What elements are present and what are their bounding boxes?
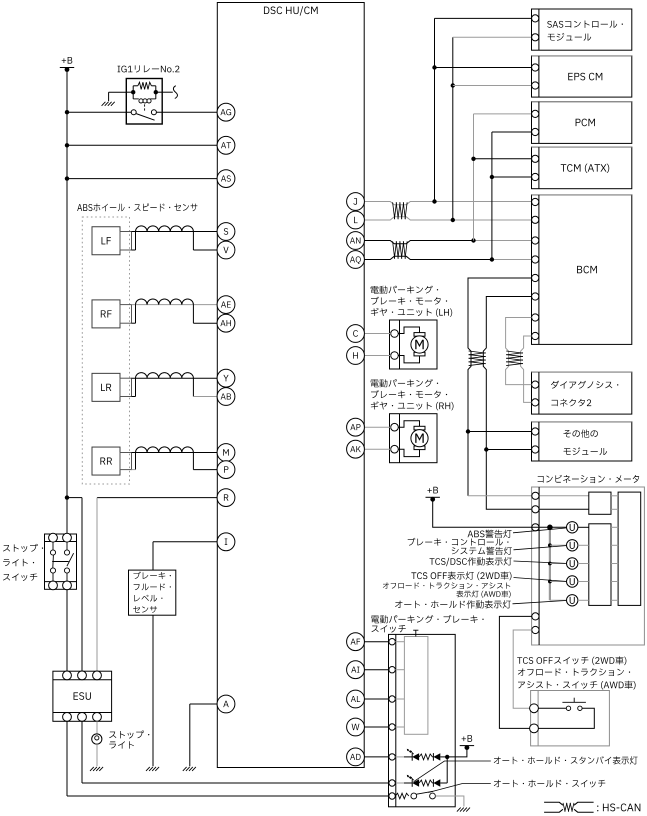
BCM terminal 2 <box>532 216 539 223</box>
stop light switch contacts <box>50 542 69 582</box>
sensor RF box <box>92 300 120 328</box>
ESU box <box>53 671 112 721</box>
twisted pair diag feed <box>506 351 523 366</box>
label PCM <box>576 119 595 127</box>
wire RF jog left <box>132 305 136 324</box>
TCM (ATX) box <box>532 147 632 189</box>
legend twisted pair <box>544 802 594 812</box>
relay K1 armature link <box>144 104 146 110</box>
label offroad traction assist indicator <box>383 582 511 597</box>
wire EPB row6 internal <box>395 782 404 784</box>
pin A <box>217 695 235 713</box>
diagnosis connector 2 connector strip <box>538 372 540 414</box>
relay K1 contact left <box>131 110 136 115</box>
wire LF jog left <box>132 232 136 251</box>
pin AE <box>217 296 235 314</box>
pin AB <box>217 388 235 406</box>
PCM connector strip <box>538 102 540 144</box>
wire pin L to CAN <box>364 217 531 220</box>
TCS OFF switch box <box>531 691 610 746</box>
sensor LF box <box>92 227 120 255</box>
wire pin AK <box>364 448 391 450</box>
wire relay coil to ground <box>109 92 127 101</box>
BCM terminal 7 <box>532 314 539 321</box>
leader ABS warning <box>513 528 566 533</box>
wire meter T4 to TCS switch <box>499 616 531 728</box>
wire bus to lamp 1 <box>550 526 567 528</box>
node relay coil left <box>126 90 135 94</box>
wire ESU bot3 to stop light <box>96 721 98 734</box>
ESU terminal top3 <box>93 671 102 680</box>
lamp auto hold indicator <box>567 595 578 606</box>
twisted loops LR <box>136 373 194 379</box>
EPB motor RH box <box>390 414 438 463</box>
label EPB switch <box>371 615 483 633</box>
pin L <box>347 211 365 229</box>
+B supply EPB <box>460 735 474 750</box>
wire pin H <box>364 355 391 357</box>
label RR <box>100 457 112 464</box>
wire meter B-C row 2 <box>611 544 618 546</box>
pin AQ <box>347 251 365 269</box>
node LED junction <box>445 755 449 759</box>
label auto hold standby lamp <box>494 756 638 764</box>
label diagnosis connector 2 <box>551 381 618 407</box>
pin AH <box>217 314 235 332</box>
meter inner block A <box>589 492 611 514</box>
wire bus to lamp 5 <box>550 599 567 601</box>
diagnosis connector 2 terminal 2 <box>532 399 539 406</box>
stop light switch terminal T1 <box>49 533 58 542</box>
label TCS OFF indicator lamp <box>411 571 511 580</box>
label stop light switch <box>3 544 43 581</box>
wire CAN2-L riser to PCM <box>492 132 532 260</box>
wire LF return <box>193 249 217 251</box>
SAS control module connector strip <box>538 9 540 50</box>
wire relay to pin AG <box>156 111 217 113</box>
EPS CM box <box>532 56 632 97</box>
label LR <box>101 384 111 391</box>
meter terminal T2 <box>532 506 539 513</box>
node EPS CAN-H tap <box>432 65 436 69</box>
wire bus to relay contact <box>67 111 131 113</box>
twisted loops RF <box>136 299 194 305</box>
label HS-CAN <box>597 804 640 812</box>
SAS control module terminal 1 <box>532 15 539 22</box>
wire BCM T5 to meter T1 <box>468 278 532 496</box>
ESU terminal bot1 <box>63 713 72 722</box>
wire pin AQ to CAN <box>364 256 531 259</box>
pin C <box>347 325 365 343</box>
pin R <box>217 489 235 507</box>
pin AK <box>347 440 365 458</box>
wire sensor to ground <box>152 615 154 766</box>
label IG1 relay No.2 <box>118 65 180 72</box>
lamp bus <box>549 527 551 600</box>
diagnosis connector 2 terminal 1 <box>532 381 539 388</box>
wire LR return <box>193 396 217 398</box>
other modules terminal 1 <box>532 428 539 435</box>
meter inner block B <box>589 524 611 606</box>
SAS control module box <box>532 9 632 50</box>
label ABS warning lamp <box>468 530 512 538</box>
wire BCM T6 to meter T2 <box>483 297 589 510</box>
other modules connector strip <box>538 422 540 461</box>
wire LF jog right <box>192 232 194 251</box>
stop light switch terminal T4 <box>63 581 72 590</box>
EPB motor LH terminal 1 <box>391 330 399 338</box>
LED auto hold standby <box>404 749 447 761</box>
label BCM <box>577 266 597 274</box>
ESU terminal top2 <box>78 671 87 680</box>
ground relay <box>102 102 115 106</box>
twisted loops RR <box>136 447 194 453</box>
EPB terminal AL <box>389 696 395 702</box>
brake fluid level sensor box <box>129 570 176 615</box>
SAS control module terminal 2 <box>532 34 539 41</box>
pin AD <box>347 748 365 766</box>
wire bus to lamp 2 <box>550 544 567 546</box>
pin AP <box>347 418 365 436</box>
wire tap to TCM T2 <box>492 176 532 178</box>
pin AL <box>347 690 365 708</box>
node AQ junction <box>490 257 494 261</box>
TCM (ATX) terminal 1 <box>532 155 539 162</box>
ESU terminal bot3 <box>93 713 102 722</box>
ESU terminal top1 <box>63 671 72 680</box>
pin AI <box>347 661 365 679</box>
BCM terminal 3 <box>532 237 539 244</box>
leader auto hold standby lamp <box>414 761 491 782</box>
wire meter T5 to TCS switch <box>513 630 532 708</box>
node bus-R <box>65 495 69 499</box>
wire pin C <box>364 333 391 335</box>
motor LH brushes <box>414 333 425 356</box>
lamp brake control system warning <box>567 540 578 551</box>
leader TCS/DSC <box>514 561 566 563</box>
EPB terminal AI <box>389 667 395 673</box>
wire meter B-C row 5 <box>611 599 618 601</box>
relay K1 coil <box>133 99 156 103</box>
wire meter B-C row 3 <box>611 563 618 565</box>
wire tap to other-modules T2 <box>486 449 531 451</box>
node AN junction <box>471 238 475 242</box>
wire motor RH brush top <box>398 421 419 428</box>
wire ESU bot1 to EPB switch <box>67 721 389 796</box>
stop light bulb <box>92 734 102 744</box>
wire TCS T1 to contact <box>538 707 566 709</box>
wire ESU bot2 to EPB switch <box>82 721 389 783</box>
wire R to ESU <box>96 498 98 672</box>
wire +B bus <box>66 70 68 534</box>
node lamp bus 4 <box>548 580 552 584</box>
motor RH brushes <box>414 426 425 449</box>
label ESU <box>74 692 91 700</box>
meter terminal T3 <box>532 524 539 531</box>
pin V <box>217 241 235 259</box>
stop light switch blades <box>52 553 73 568</box>
pin W <box>347 718 365 736</box>
node bus-AT <box>65 143 69 147</box>
pin AT <box>217 136 235 154</box>
wire LED1 to LED2 <box>446 757 448 783</box>
wire BCM T8 to diag T2 <box>521 336 532 402</box>
combination meter box <box>532 487 645 645</box>
connector squiggle <box>173 86 177 99</box>
stop light switch terminal T3 <box>49 581 58 590</box>
wire CAN-H riser to SAS <box>435 18 532 201</box>
leader auto hold indicator <box>513 601 567 604</box>
twisted loops LF <box>136 226 194 232</box>
EPB switch box <box>389 634 456 806</box>
lamp TCS OFF indicator <box>567 576 578 587</box>
node lamp bus top <box>547 525 553 531</box>
ground stop light <box>90 767 103 771</box>
label LF <box>102 237 111 244</box>
relay K1 resistor <box>138 82 152 89</box>
BCM terminal 1 <box>532 198 539 205</box>
wire A to ground <box>189 704 191 766</box>
wire TCS contact to T2 <box>538 708 594 728</box>
wire lamp 5 to block B <box>578 599 589 601</box>
BCM terminal 4 <box>532 256 539 263</box>
wire meter B-C row 4 <box>611 581 618 583</box>
wire BCM T7 to diag T1 <box>506 318 532 385</box>
relay K1 blade <box>136 114 154 121</box>
EPB motor LH terminal 2 <box>391 352 399 360</box>
pin J <box>347 193 365 211</box>
connector bracket RF <box>120 305 132 324</box>
EPB motor RH strip <box>399 414 401 463</box>
wire EPB AF internal <box>395 641 404 643</box>
auto hold switch resistor <box>395 793 409 799</box>
wire bus to pin AS <box>67 178 217 180</box>
meter connector strip <box>538 487 540 645</box>
label auto hold switch <box>494 780 605 788</box>
pin P <box>217 461 235 479</box>
BCM terminal 8 <box>532 332 539 339</box>
TCS switch terminal 1 <box>530 704 539 713</box>
lamp ABS warning <box>567 522 578 533</box>
node L junction <box>451 218 455 222</box>
motor LH M <box>411 336 428 353</box>
pin M <box>217 444 235 462</box>
pin S <box>217 223 235 241</box>
connector bracket RR <box>120 453 132 470</box>
+B supply symbol <box>60 57 74 72</box>
stop light switch terminal T2 <box>63 533 72 542</box>
EPB switch strip <box>395 634 397 806</box>
DSC HU/CM unit box <box>217 3 364 768</box>
pin H <box>347 347 365 365</box>
wire pin AD to EPB <box>364 756 389 758</box>
node bus-AG <box>65 110 69 114</box>
label brake fluid level sensor <box>133 572 171 613</box>
wire pin I <box>153 541 217 543</box>
wire LF signal <box>132 231 218 233</box>
wire bus to lamp 3 <box>550 563 567 565</box>
ground EPB switch <box>457 808 470 812</box>
auto hold switch blade <box>417 791 434 794</box>
node bus-AS <box>65 176 69 180</box>
label other modules <box>563 429 607 455</box>
label TCM (ATX) <box>561 164 610 173</box>
other modules box <box>532 422 632 461</box>
leader TCS OFF <box>514 578 567 582</box>
PCM terminal 2 <box>532 128 539 135</box>
PCM box <box>532 102 632 144</box>
wire RR jog right <box>192 453 194 470</box>
label EPB motor RH <box>371 379 454 410</box>
sensor RR box <box>92 447 120 475</box>
wire tap to TCM T1 <box>474 158 532 160</box>
ground brake fluid sensor <box>146 767 159 771</box>
wire EPB AD internal <box>395 756 404 758</box>
EPB actuator mark <box>413 630 418 636</box>
twisted pair meter feed <box>469 351 486 366</box>
label combination meter <box>538 475 640 483</box>
wire lamp 1 to block B <box>578 526 589 528</box>
EPB motor RH terminal 1 <box>391 423 399 431</box>
label TCS OFF switch <box>517 656 635 689</box>
EPB motor RH terminal 2 <box>391 445 399 453</box>
pin AS <box>217 170 235 188</box>
wire relay coil continuation <box>162 91 173 93</box>
wire tap to EPS T2 <box>453 85 532 87</box>
ESU strip lines <box>53 680 112 713</box>
wire RR jog left <box>132 453 136 470</box>
node relay coil right <box>154 90 163 94</box>
wire motor RH brush bottom <box>398 449 419 456</box>
wire bus to ESU branch <box>67 498 82 672</box>
wire +B to LED <box>447 748 467 757</box>
EPS CM terminal 1 <box>532 64 539 71</box>
wire pin AP <box>364 426 391 428</box>
wire pin R <box>97 497 217 499</box>
TCM (ATX) connector strip <box>538 147 540 189</box>
EPB motor LH box <box>390 320 438 369</box>
label stop light <box>109 730 149 748</box>
node other-modules tap1 <box>466 429 470 433</box>
wire EPB AL internal <box>395 698 404 700</box>
relay K1 branch frame <box>133 86 156 99</box>
relay K1 contact right <box>151 110 156 115</box>
wire pin W to EPB <box>364 726 389 728</box>
LED auto hold switch lamp <box>404 775 447 787</box>
wire into meter T1 <box>468 495 589 497</box>
TCS switch strip <box>537 691 539 746</box>
label DSC HU/CM <box>264 6 318 15</box>
diagnosis connector 2 box <box>532 372 632 414</box>
wire motor LH brush bottom <box>398 356 419 363</box>
pin AN <box>347 232 365 250</box>
motor RH M <box>411 430 428 447</box>
sensor group dashed box <box>82 217 129 484</box>
leader auto hold switch <box>428 784 491 793</box>
push switch actuator <box>562 698 586 703</box>
twisted pair AN/AQ <box>393 241 408 258</box>
relay K1 box <box>126 79 162 125</box>
wire pin AI to EPB <box>364 669 389 671</box>
stop light switch box <box>45 534 77 589</box>
wire RF return <box>193 322 217 324</box>
connector bracket LF <box>120 232 132 251</box>
wire motor LH brush top <box>398 327 419 334</box>
wire LR jog left <box>132 378 136 396</box>
wire LR signal <box>132 377 218 379</box>
wire RR signal <box>132 452 218 454</box>
pin AG <box>217 103 235 121</box>
EPB inner switch block <box>404 637 428 735</box>
TCM (ATX) terminal 2 <box>532 173 539 180</box>
wire tap to EPS T1 <box>435 67 532 69</box>
EPB terminal row6 <box>389 780 395 786</box>
wire EPB W internal <box>395 726 404 728</box>
connector bracket LR <box>120 378 132 396</box>
wire I down to sensor <box>152 542 154 570</box>
wire lamp 3 to block B <box>578 563 589 565</box>
label EPS CM <box>568 73 602 81</box>
BCM terminal 5 <box>532 274 539 281</box>
label SAS control module <box>547 21 623 41</box>
wire LR jog right <box>192 378 194 396</box>
node lamp bus 3 <box>548 562 552 566</box>
wire CAN-L riser to SAS <box>453 37 532 220</box>
wire bus to pin AT <box>67 144 217 146</box>
label TCS/DSC indicator lamp <box>430 557 512 566</box>
sensor LR box <box>92 373 120 401</box>
node EPS CAN-L tap <box>451 83 455 87</box>
pin I <box>217 533 235 551</box>
EPB terminal AD <box>389 754 395 760</box>
wire RF signal <box>132 304 218 306</box>
label RF <box>101 310 112 317</box>
leader brake warning <box>514 546 567 550</box>
EPB motor LH strip <box>399 320 401 369</box>
other modules terminal 2 <box>532 446 539 453</box>
BCM connector strip <box>538 195 540 345</box>
wire lamp 2 to block B <box>578 544 589 546</box>
TCS switch terminal 2 <box>530 724 539 733</box>
auto hold switch contact 2 <box>430 793 436 799</box>
wire pin AL to EPB <box>364 698 389 700</box>
node TCM CAN-H tap <box>471 157 475 161</box>
meter inner block C <box>618 492 641 605</box>
stop light switch strip lines <box>45 542 77 582</box>
wire CAN2-H riser to PCM <box>474 114 532 241</box>
label auto hold indicator lamp <box>395 600 511 608</box>
wire meter A-C row1 <box>611 495 618 497</box>
wire pin J to CAN <box>364 202 531 205</box>
pin AF <box>347 633 365 651</box>
BCM box <box>532 195 632 345</box>
node J junction <box>432 199 436 203</box>
PCM terminal 1 <box>532 110 539 117</box>
wire pin AN to CAN <box>364 241 531 244</box>
twisted pair J/L <box>393 202 408 219</box>
wire meter A-C row2 <box>611 508 618 510</box>
EPB terminal W <box>389 724 395 730</box>
wire pin A <box>190 703 218 705</box>
meter terminal T1 <box>532 492 539 499</box>
+B supply meter <box>426 487 440 502</box>
lamp TCS/DSC indicator <box>567 558 578 569</box>
ground pin A <box>183 767 196 771</box>
node other-modules tap2 <box>484 447 488 451</box>
node lamp bus 2 <box>548 543 552 547</box>
EPS CM connector strip <box>538 56 540 97</box>
label ABS wheel speed sensor <box>77 203 197 211</box>
